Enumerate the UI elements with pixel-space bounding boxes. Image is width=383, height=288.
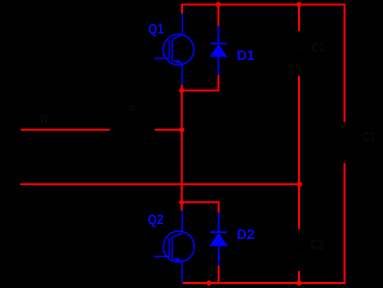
wire W output right segment [155, 129, 182, 131]
diode D1 [210, 26, 228, 75]
node midpoint C1 junction [297, 182, 302, 187]
svg-text:W: W [40, 111, 49, 126]
wire top DC+ bus [182, 5, 345, 123]
resistor (dark) in W line [112, 124, 153, 135]
svg-text:Q1: Q1 [148, 21, 164, 37]
transistor Q2 [154, 211, 194, 283]
capacitor C2 (dark, lower DC-link) [290, 229, 308, 271]
faint mark in W line [129, 105, 135, 111]
capacitor C1 (dark, midpoint DC-link) [290, 31, 308, 76]
transistor Q1 [154, 14, 194, 86]
svg-text:Q2: Q2 [148, 211, 164, 227]
wire C1 top lead [298, 5, 300, 32]
wire D1 cathode stub [217, 5, 219, 27]
wire Q2 collector / D2 branch [182, 202, 219, 213]
wire C1 bottom to C2 top [298, 76, 300, 229]
node Q1 emitter junction [179, 88, 184, 93]
capacitor C3 (dark, right) [336, 122, 353, 163]
svg-text:D2: D2 [237, 226, 255, 242]
wire D2 anode to bottom [218, 265, 220, 283]
svg-text:D1: D1 [237, 47, 255, 63]
node top D1 junction [216, 2, 221, 7]
wire midpoint horizontal [20, 183, 299, 185]
wire Q1 emitter to D1 anode [182, 75, 219, 91]
wire W output left segment [21, 129, 110, 131]
svg-text:C2: C2 [311, 236, 325, 252]
svg-text:C3: C3 [363, 129, 375, 145]
node bottom bus junction [206, 280, 211, 285]
wire bottom DC- bus [183, 163, 345, 283]
svg-text:C1: C1 [312, 39, 325, 55]
node bottom C2 junction [297, 280, 302, 285]
node W output junction [179, 127, 184, 132]
diode D2 [209, 213, 228, 266]
wire phase node vertical [181, 91, 183, 203]
node top C1 junction [296, 2, 301, 7]
wire C2 bottom lead [298, 271, 300, 283]
node Q2 collector junction [179, 200, 184, 205]
